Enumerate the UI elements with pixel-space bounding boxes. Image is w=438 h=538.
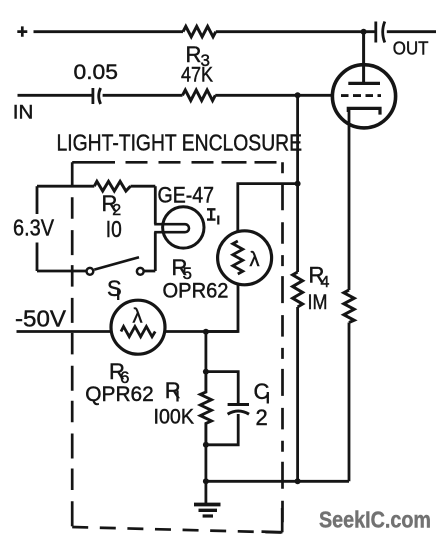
node OUT label: [393, 38, 429, 59]
label GE-47: [158, 183, 215, 208]
photocell R5 lambda: [250, 249, 260, 271]
wire node down to R1/C1: [204, 332, 207, 372]
label S1: [107, 276, 122, 301]
wire grid line to tube: [215, 94, 332, 97]
svg-text:LIGHT-TIGHT ENCLOSURE: LIGHT-TIGHT ENCLOSURE: [57, 130, 303, 156]
resistor (B+ rail, upper of R3 pair): [183, 26, 216, 36]
svg-text:SeekIC.com: SeekIC.com: [319, 507, 431, 533]
label R6 QPR62: [85, 359, 154, 406]
junction ground node: [203, 478, 209, 484]
switch S1: [87, 257, 144, 274]
photocell R6 element (horizontal zigzag): [121, 327, 155, 337]
triode cathode: [348, 108, 380, 114]
wire 6.3V rail lower segment: [36, 243, 39, 272]
svg-text:0.05: 0.05: [74, 60, 119, 84]
svg-text:S: S: [107, 276, 122, 301]
svg-text:λ: λ: [250, 249, 260, 271]
junction ground bus / R4: [295, 478, 301, 484]
wire switch to lamp lower lead: [144, 232, 156, 271]
triode grid (dashed): [341, 94, 381, 97]
label LIGHT-TIGHT ENCLOSURE: [57, 130, 303, 156]
resistor R4 1M: [293, 263, 330, 315]
svg-text:OPR62: OPR62: [163, 279, 229, 303]
svg-text:4: 4: [321, 274, 330, 291]
junction R1/C1 top: [203, 369, 209, 375]
wire cathode resistor to ground bus: [348, 323, 351, 482]
wire B+ rail left: [34, 30, 184, 33]
wire IN lead: [18, 94, 92, 97]
resistor R3 47K: [181, 42, 215, 101]
wire node to R4: [296, 184, 299, 272]
junction R1/C1 bottom: [203, 442, 209, 448]
capacitor 0.05 (input coupling): [74, 60, 119, 104]
svg-text:-50V: -50V: [15, 306, 67, 332]
node IN label: [13, 103, 34, 124]
resistor R1 100K: [154, 372, 212, 445]
photocell R6 envelope: [111, 300, 165, 354]
capacitor C-out (output coupling): [376, 22, 385, 43]
svg-text:I00K: I00K: [154, 405, 195, 429]
ground: [194, 481, 221, 516]
wire to ground node: [204, 445, 207, 482]
svg-text:47K: 47K: [181, 63, 214, 87]
svg-text:OUT: OUT: [393, 38, 429, 59]
wire grid node down: [296, 95, 299, 183]
photocell R6 lambda: [133, 306, 143, 328]
wire OUT lead: [387, 30, 436, 33]
watermark SeekIC.com: [319, 507, 431, 533]
wire R5 top lead: [238, 184, 298, 232]
label -50V: [15, 306, 67, 332]
wire R4 to ground bus: [296, 307, 299, 481]
node + (B+ supply terminal): [17, 26, 27, 36]
wire plate lead: [362, 32, 365, 84]
junction -50V node: [203, 329, 209, 335]
wire -50V lead: [17, 330, 112, 333]
wire 6.3V top to R2: [37, 185, 94, 188]
junction grid node: [295, 92, 301, 98]
label R5 OPR62: [163, 255, 229, 303]
triode plate: [348, 82, 380, 85]
wire R6 to -50V node: [165, 330, 238, 333]
wire lamp upper lead: [154, 186, 157, 224]
wire R5 bottom lead: [206, 285, 238, 332]
wire cathode lead down: [348, 110, 351, 290]
label 6.3V: [13, 215, 55, 241]
svg-text:2: 2: [256, 405, 268, 430]
wire 6.3V bottom to switch: [37, 270, 87, 273]
svg-text:IN: IN: [13, 103, 34, 124]
wire input to R3: [103, 94, 183, 97]
svg-text:6.3V: 6.3V: [13, 215, 55, 241]
svg-text:λ: λ: [133, 306, 143, 328]
resistor (cathode load, right of R4 pair): [344, 290, 354, 323]
wire ground bus: [206, 480, 349, 483]
label I1: [207, 209, 218, 224]
wire B+ rail to output node: [216, 30, 375, 33]
svg-text:IM: IM: [308, 290, 328, 314]
lamp I1 filament stem: [154, 224, 189, 232]
resistor R2 10: [94, 181, 130, 242]
enclosure dashed box: [72, 162, 282, 532]
photocell R5 element (vertical zigzag): [233, 241, 243, 274]
photocell R5 envelope: [218, 231, 272, 285]
junction R5 top node: [295, 181, 301, 187]
capacitor C1 2: [206, 372, 270, 445]
wire R2 to lamp: [131, 185, 156, 188]
wire 6.3V rail upper segment: [36, 186, 39, 214]
svg-text:I0: I0: [106, 216, 122, 242]
svg-text:GE-47: GE-47: [158, 183, 215, 208]
lamp I1 GE-47 envelope: [163, 207, 204, 248]
triode V1 envelope: [332, 65, 395, 128]
svg-text:QPR62: QPR62: [85, 382, 154, 406]
junction plate / output node: [361, 29, 367, 35]
